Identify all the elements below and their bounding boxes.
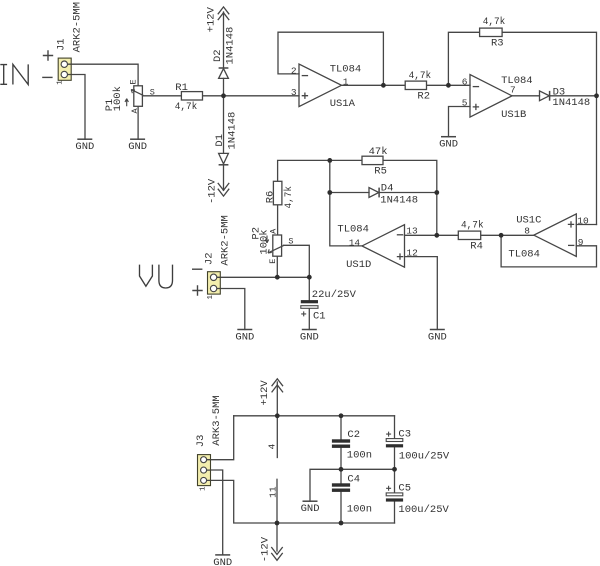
svg-text:GND: GND <box>235 332 254 344</box>
svg-text:8: 8 <box>524 226 530 237</box>
svg-text:+12V: +12V <box>206 6 218 32</box>
svg-text:GND: GND <box>428 332 447 344</box>
wire C5 bottom <box>394 502 396 524</box>
junction node D4 anode <box>327 190 332 195</box>
potentiometer P1 <box>125 86 143 107</box>
connector J3 <box>198 455 211 486</box>
svg-text:1: 1 <box>343 76 349 87</box>
svg-text:-12V: -12V <box>259 536 271 562</box>
svg-text:9: 9 <box>578 237 584 248</box>
diode D2 <box>219 68 229 78</box>
junction node US1D pin13 <box>434 233 439 238</box>
wire left bus to US1D output 14 <box>330 160 362 246</box>
svg-text:10: 10 <box>577 216 589 227</box>
svg-text:US1B: US1B <box>501 109 526 121</box>
wire node 6 up to R3 <box>448 32 479 85</box>
svg-text:J3: J3 <box>195 435 207 448</box>
wire US1C pin 9 feedback loop <box>501 235 596 267</box>
svg-text:A: A <box>269 228 279 234</box>
svg-text:C4: C4 <box>347 474 360 486</box>
svg-text:R5: R5 <box>374 166 387 178</box>
junction node US1A out <box>381 83 386 88</box>
capacitor C4 <box>332 483 350 492</box>
svg-text:100k: 100k <box>112 86 124 111</box>
resistor R6 <box>273 181 282 205</box>
junction node C1 top <box>307 275 312 280</box>
wire +12V arrow to TL084 pin 4 <box>276 382 278 458</box>
junction node -12V rail arrow <box>275 521 280 526</box>
svg-text:ARK2-5MM: ARK2-5MM <box>72 2 84 52</box>
svg-text:GND: GND <box>128 141 147 153</box>
wire US1B pin 5 to GND <box>449 107 471 137</box>
ground GND J2 <box>237 329 252 331</box>
svg-text:4,7k: 4,7k <box>483 16 506 28</box>
wire D3 to right bus node <box>550 95 597 97</box>
svg-text:R1: R1 <box>175 82 188 94</box>
wire C3 top <box>394 416 396 439</box>
svg-text:C3: C3 <box>398 429 411 441</box>
svg-text:5: 5 <box>462 98 468 109</box>
svg-text:TL084: TL084 <box>337 224 369 236</box>
svg-text:R4: R4 <box>470 241 483 253</box>
op-amp US1D <box>362 225 405 268</box>
ground GND US1B pin5 <box>441 136 456 138</box>
svg-text:J2: J2 <box>204 252 216 265</box>
op-amp US1B <box>470 75 512 118</box>
svg-text:R6: R6 <box>264 191 276 204</box>
svg-text:TL084: TL084 <box>508 249 540 261</box>
svg-text:4,7k: 4,7k <box>283 186 295 209</box>
svg-text:D4: D4 <box>381 182 394 194</box>
supply +12V bottom <box>272 379 283 393</box>
junction node D4 cathode <box>434 190 439 195</box>
wire R2 to US1B pin 6 <box>427 84 471 86</box>
capacitor C1 <box>301 300 318 316</box>
wire R4 to US1D pin 13 <box>405 234 459 236</box>
svg-text:47k: 47k <box>369 146 388 158</box>
ground GND C1 <box>302 329 317 331</box>
wire J2 pin2 to C1 node <box>220 276 309 278</box>
junction node R5 left <box>327 158 332 163</box>
ground GND J1 <box>77 138 92 140</box>
svg-text:A: A <box>130 108 140 114</box>
wire US1B output to D3 <box>512 95 540 97</box>
junction node +12V rail arrow <box>275 413 280 418</box>
resistor R1 <box>181 92 202 100</box>
svg-text:14: 14 <box>349 237 361 248</box>
svg-text:1: 1 <box>207 295 215 300</box>
svg-text:100n: 100n <box>347 450 372 462</box>
svg-text:GND: GND <box>439 139 458 151</box>
junction node R1/D1/D2 <box>221 93 226 98</box>
wire +12V rail <box>234 415 395 417</box>
svg-text:1: 1 <box>56 80 64 85</box>
wire J2 pin1 to GND <box>220 289 245 330</box>
junction node D3/R3 <box>594 93 599 98</box>
svg-text:1N4148: 1N4148 <box>552 97 590 109</box>
svg-text:1N4148: 1N4148 <box>380 194 418 206</box>
wire R5 left to R6 top <box>278 160 362 181</box>
diode D4 <box>369 188 379 198</box>
wire US1A output to R2 <box>342 84 406 86</box>
J1 minus mark <box>42 76 52 78</box>
junction node C2/C4 mid <box>339 467 344 472</box>
svg-text:E: E <box>128 79 138 84</box>
svg-text:D2: D2 <box>212 49 224 62</box>
svg-text:US1A: US1A <box>330 98 356 110</box>
svg-text:C5: C5 <box>398 483 411 495</box>
diode D3 <box>540 91 550 101</box>
wire P2 pin E down to net <box>276 256 278 277</box>
svg-text:4,7k: 4,7k <box>409 70 432 82</box>
wire R6 bottom to P2 pin A <box>277 205 279 235</box>
svg-text:100u/25V: 100u/25V <box>398 504 449 516</box>
diode D1 <box>219 153 229 164</box>
svg-text:J1: J1 <box>55 38 67 51</box>
svg-text:US1D: US1D <box>346 259 371 271</box>
wire D4 cathode <box>379 192 437 194</box>
node label IN <box>0 64 28 84</box>
capacitor C2 <box>332 439 350 448</box>
svg-text:4,7k: 4,7k <box>461 220 484 232</box>
svg-text:S: S <box>150 87 155 97</box>
wire D2 to node to D1 <box>223 78 225 153</box>
svg-text:GND: GND <box>300 332 319 344</box>
svg-text:GND: GND <box>301 503 320 515</box>
potentiometer P2 <box>265 235 284 256</box>
wire C2 bottom <box>340 448 342 469</box>
svg-text:C2: C2 <box>347 429 360 441</box>
connector J1 <box>58 58 71 80</box>
wire US1C pin 10 stub <box>576 224 596 226</box>
wire C4 top <box>340 469 342 483</box>
J1 plus mark <box>43 50 53 60</box>
svg-text:1N4148: 1N4148 <box>227 112 239 150</box>
svg-text:R3: R3 <box>491 38 504 50</box>
capacitor C5 <box>386 486 403 502</box>
svg-text:2: 2 <box>291 65 297 76</box>
wire J1 pin2 to P1 pin E <box>71 64 138 86</box>
svg-text:1N4148: 1N4148 <box>224 27 236 65</box>
svg-text:C1: C1 <box>313 310 326 322</box>
op-amp US1C <box>534 214 577 257</box>
svg-text:4: 4 <box>267 444 278 450</box>
svg-text:100n: 100n <box>347 504 372 516</box>
wire C1 bottom to GND <box>308 309 310 330</box>
J2 minus mark <box>192 268 202 270</box>
svg-text:11: 11 <box>268 486 279 498</box>
wire P2 wiper S to C1 node <box>284 245 310 277</box>
svg-text:R2: R2 <box>417 91 430 103</box>
svg-text:13: 13 <box>406 226 418 237</box>
junction node P2 E / J2 <box>275 275 280 280</box>
wire C2 top <box>340 416 342 440</box>
svg-text:D1: D1 <box>214 134 226 147</box>
svg-text:US1C: US1C <box>516 214 541 226</box>
svg-text:ARK3-5MM: ARK3-5MM <box>211 395 223 445</box>
wire TL084 pin 11 to -12V arrow <box>276 479 278 551</box>
ground GND P1 <box>130 138 145 140</box>
svg-text:+12V: +12V <box>259 380 271 406</box>
svg-text:TL084: TL084 <box>330 63 362 75</box>
supply +12V top <box>218 7 229 20</box>
wire P1 wiper S to R1 <box>143 95 182 97</box>
svg-text:1: 1 <box>200 486 208 491</box>
junction node C3/C5 mid <box>392 467 397 472</box>
connector J2 <box>208 272 221 294</box>
junction node US1C out <box>499 233 504 238</box>
svg-text:6: 6 <box>462 77 468 88</box>
resistor R3 <box>480 28 503 36</box>
wire US1D pin 12 to GND <box>405 257 438 330</box>
svg-text:3: 3 <box>291 87 297 98</box>
svg-text:GND: GND <box>213 557 232 566</box>
svg-text:4,7k: 4,7k <box>175 101 198 113</box>
wire J3 pin2 to GND <box>211 470 223 555</box>
resistor R5 <box>362 156 383 164</box>
svg-text:ARK2-5MM: ARK2-5MM <box>220 215 232 265</box>
wire P1 pin A to GND <box>137 106 139 139</box>
svg-text:22u/25V: 22u/25V <box>312 289 357 301</box>
svg-text:GND: GND <box>75 141 94 153</box>
wire R5 right to pin 13 node <box>383 160 437 235</box>
resistor R4 <box>458 231 480 239</box>
wire R1 to US1A pin 3 <box>203 95 300 97</box>
wire C4 bottom <box>340 492 342 523</box>
svg-text:-12V: -12V <box>206 178 218 204</box>
wire J3 pin3 up to +12V rail <box>211 416 234 460</box>
supply -12V bottom <box>271 547 282 560</box>
node label VU <box>140 265 173 288</box>
wire J1 pin1 to GND <box>71 75 85 140</box>
junction node C4 bottom <box>339 521 344 526</box>
J2 plus mark <box>192 285 202 295</box>
ground GND J3 <box>215 554 230 556</box>
wire J3 pin1 to -12V rail <box>211 480 395 523</box>
ground GND US1D pin12 <box>430 329 445 331</box>
op-amp US1A <box>299 64 342 107</box>
wire US1A pin 2 feedback loop <box>278 32 383 85</box>
resistor R2 <box>405 81 426 89</box>
wire US1C output to R4 <box>481 234 534 236</box>
capacitor C3 <box>386 432 403 448</box>
svg-text:100u/25V: 100u/25V <box>399 450 450 462</box>
wire R3 to right bus down to US1C pin 10 <box>502 32 596 224</box>
wire +12V arrow to D2 <box>223 12 225 68</box>
wire D4 anode <box>330 192 369 194</box>
ground GND middle rail <box>303 500 318 502</box>
wire D1 to -12V arrow <box>223 165 225 190</box>
wire C1 top <box>308 277 310 300</box>
wire GND rail middle <box>310 469 395 501</box>
svg-text:12: 12 <box>406 247 418 258</box>
svg-text:E: E <box>268 259 278 264</box>
supply -12V top <box>218 183 229 196</box>
svg-text:TL084: TL084 <box>501 75 533 87</box>
svg-text:S: S <box>288 236 293 246</box>
wire C3 bottom <box>394 447 396 469</box>
junction node C2 top <box>339 413 344 418</box>
wire C5 top <box>394 469 396 493</box>
junction node US1B pin6 <box>446 83 451 88</box>
